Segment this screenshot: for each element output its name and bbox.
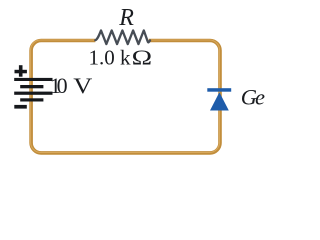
diode D1 anode triangle [210, 92, 229, 110]
svg-text:R: R [118, 5, 134, 31]
battery V1 plates [14, 78, 52, 102]
svg-text:1.0 k: 1.0 k [89, 45, 132, 69]
wire loop [31, 41, 220, 153]
resistor R1 zigzag [95, 30, 150, 44]
svg-text:Ω: Ω [132, 46, 152, 69]
svg-text:0: 0 [57, 73, 68, 98]
wire highlight [31, 40, 220, 152]
diode D1 cathode bar [207, 88, 231, 92]
wire gap for resistor [95, 37, 148, 45]
svg-text:Ge: Ge [241, 85, 265, 110]
battery V1 plus sign [15, 65, 27, 77]
battery V1 minus sign [14, 105, 26, 109]
value label Ohm [132, 46, 152, 69]
svg-text:V: V [73, 74, 93, 98]
